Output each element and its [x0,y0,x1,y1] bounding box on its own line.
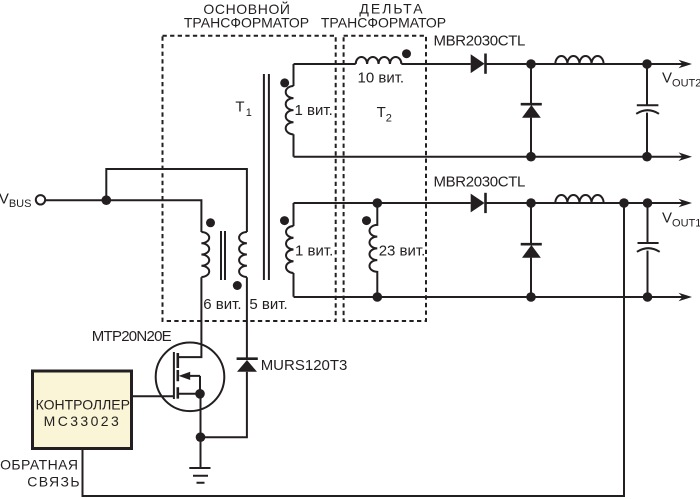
svg-text:ТРАНСФОРМАТОР: ТРАНСФОРМАТОР [321,15,446,31]
junction node C1 bottom [642,152,652,162]
svg-text:6 вит.: 6 вит. [203,296,241,313]
svg-text:23 вит.: 23 вит. [379,243,426,260]
wire secondary 1vit top loop [293,64,295,157]
junction node feedback tap [619,198,629,208]
diode D1 bar [521,103,542,106]
dashed box main transformer [163,36,336,321]
junction node source-ground [196,432,206,442]
junction node D1 top [526,59,536,69]
transistor Q1 source stub and body connection [178,376,200,394]
svg-text:1 вит.: 1 вит. [295,243,333,260]
wire 5 vit to MURS cathode [246,277,248,358]
diode MBR2030CTL bottom triangle [471,194,485,213]
wire top rail VOUT2 [294,63,686,65]
junction node 23 vit top [373,198,383,208]
transistor Q1 channel segments [177,353,180,399]
arrow rail4 [679,293,693,302]
wire VBUS to primary [45,200,202,232]
junction node D1 bottom [526,152,536,162]
controller U1 box [33,371,132,449]
inductor 23 vit delta winding [369,203,377,297]
svg-text:T1: T1 [235,98,251,119]
diode MBR2030CTL top triangle [471,54,485,73]
phase dot 1 vit top [280,78,289,87]
transistor Q1 body arrow [179,372,191,380]
wire freewheel diode D1 branch [530,64,532,157]
junction node D2 bottom [526,292,536,302]
diode MBR bottom bar [484,193,487,213]
wire rail VOUT1 [294,202,686,204]
inductor 1 vit lower winding [286,226,293,273]
inductor 10 vit delta winding [356,57,402,64]
wire bottom rail of VOUT2 loop [294,156,686,158]
terminal VBUS circle [36,195,45,204]
junction node C2 bottom [643,292,653,302]
transistor Q1 gate line [173,352,175,399]
diode D1 freewheel triangle [522,105,541,118]
diode D2 bar [521,243,542,246]
svg-text:10 вит.: 10 вит. [358,69,405,86]
capacitor C2 plates [637,243,660,252]
inductor 5 vit winding [239,232,247,277]
wire feedback loop [83,203,625,496]
phase dot 10 vit [402,49,411,58]
wire MURS anode to source junction [201,372,247,437]
arrow VOUT2 [679,60,693,69]
arrow rail2 [679,152,693,161]
phase dot 6 vit [206,218,215,227]
svg-text:VOUT1: VOUT1 [662,209,700,229]
junction node 23 vit bottom [373,292,383,302]
wire VBUS junction up and over to 5-turn winding [106,169,247,232]
wire MOSFET source down to junction [200,394,202,437]
diode D2 freewheel triangle [522,245,541,258]
diode MURS bar [237,357,258,360]
phase dot 1 vit lower [280,216,289,225]
wire gate from controller [132,395,174,397]
wire freewheel diode D2 branch [530,203,532,297]
wire capacitor C1 branch [646,64,648,157]
junction node MOSFET body-source [195,389,205,399]
svg-text:VBUS: VBUS [0,191,31,211]
inductor output filter L top [555,56,603,64]
wire 6 vit to MOSFET drain [178,277,202,357]
svg-text:MBR2030CTL: MBR2030CTL [434,32,526,49]
junction node VBUS [102,195,112,205]
svg-text:T2: T2 [377,104,392,125]
inductor 1 vit top winding [286,86,294,134]
svg-text:КОНТРОЛЛЕР: КОНТРОЛЛЕР [36,397,130,413]
junction node D2 top [526,198,536,208]
svg-text:MTP20N20E: MTP20N20E [92,328,172,345]
phase dot 23 vit [362,216,371,225]
ground stem [200,437,202,467]
core T1 primary pair [221,231,225,280]
svg-text:ОБРАТНАЯ: ОБРАТНАЯ [0,456,78,472]
diode MBR top bar [484,54,487,74]
capacitor C1 plates [636,105,659,114]
svg-text:VOUT2: VOUT2 [662,69,700,89]
junction node C1 top [642,59,652,69]
inductor output filter L bottom [555,195,603,203]
core T1 main [264,74,269,280]
svg-text:MC33023: MC33023 [44,413,122,429]
svg-text:1 вит.: 1 вит. [295,102,333,119]
svg-text:MURS120T3: MURS120T3 [261,357,348,374]
svg-text:MBR2030CTL: MBR2030CTL [434,174,526,191]
arrow VOUT1 [679,199,693,208]
junction node C2 top [643,198,653,208]
transistor Q1 MOSFET circle [156,343,225,412]
svg-text:СВЯЗЬ: СВЯЗЬ [27,473,81,489]
wire capacitor C2 branch [647,203,649,297]
wire secondary 1vit lower loop [293,203,295,297]
phase dot 5 vit [233,281,242,290]
wire bottom rail of VOUT1 loop [294,296,686,298]
svg-text:ТРАНСФОРМАТОР: ТРАНСФОРМАТОР [184,15,309,31]
dashed box delta transformer [344,36,426,321]
ground bars [189,468,210,483]
diode MURS120T3 triangle [237,360,257,372]
svg-text:5 вит.: 5 вит. [249,296,287,313]
inductor 6 vit winding [201,232,209,277]
